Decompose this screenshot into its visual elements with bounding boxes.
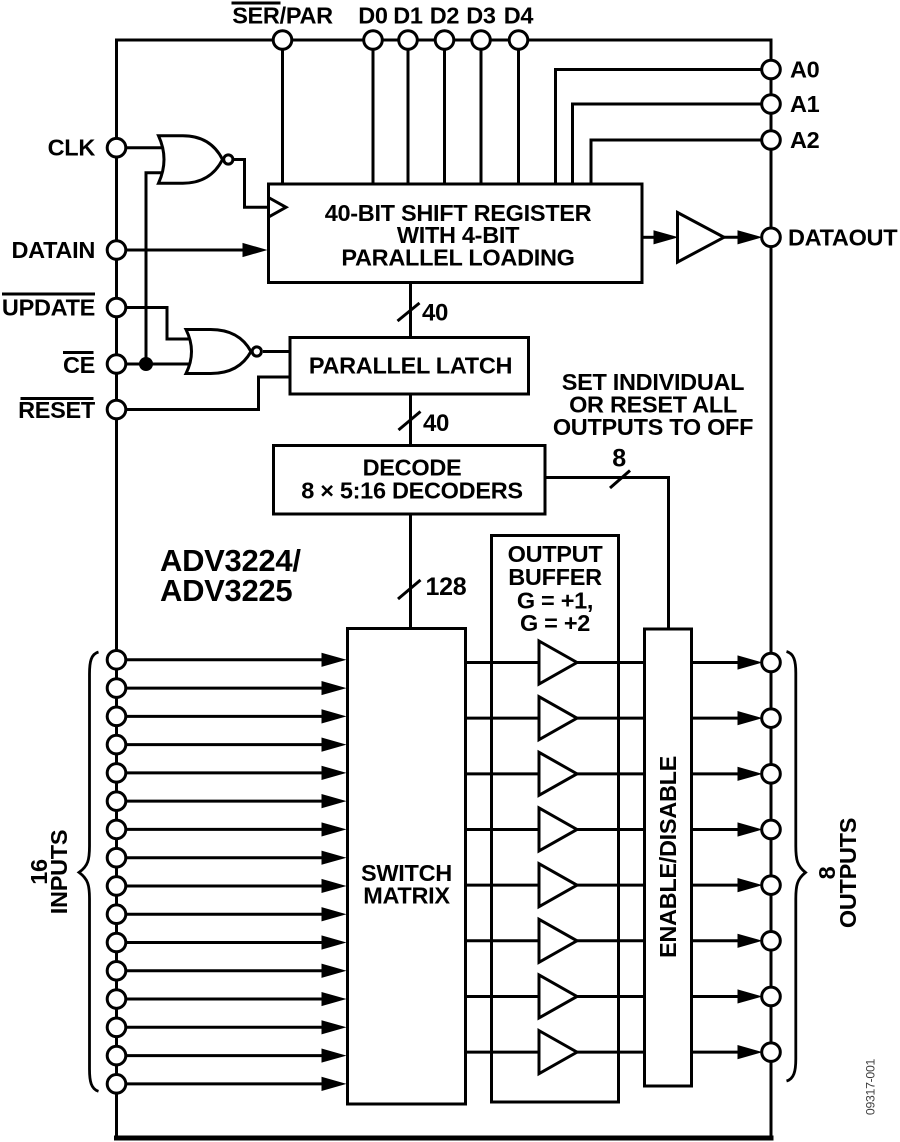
wire switch matrix to output buffer 6 [466, 939, 540, 942]
svg-text:PARALLEL LOADING: PARALLEL LOADING [341, 245, 574, 271]
svg-text:D3: D3 [466, 3, 496, 29]
svg-text:40: 40 [423, 410, 449, 437]
svg-text:OUTPUTS TO OFF: OUTPUTS TO OFF [553, 414, 753, 440]
svg-text:ADV3225: ADV3225 [160, 573, 292, 608]
node input 8 terminal [107, 848, 126, 867]
wire buffer U4 to DATAOUT [724, 236, 741, 239]
wire switch matrix to output buffer 5 [466, 884, 540, 887]
node input 9 terminal [107, 877, 126, 896]
svg-text:SER/PAR: SER/PAR [232, 3, 333, 29]
node D4 terminal [504, 3, 534, 50]
buffer amplifier 3 [539, 752, 577, 795]
node output 1 terminal [762, 653, 781, 672]
svg-text:RESET: RESET [18, 397, 96, 423]
wire input 7 to switch matrix [126, 822, 347, 836]
wire enable/disable to output 7 [692, 989, 763, 1003]
wire CE junction up to NOR U1 input [146, 173, 172, 364]
node output 7 terminal [762, 987, 781, 1006]
svg-text:G = +2: G = +2 [520, 610, 590, 636]
node input 11 terminal [107, 933, 126, 952]
wire buffer 1 to enable/disable [577, 661, 645, 664]
wire input 13 to switch matrix [126, 992, 347, 1006]
wire buffer 5 to enable/disable [577, 884, 645, 887]
svg-text:OUTPUTS: OUTPUTS [835, 818, 861, 928]
node input 1 terminal [107, 651, 126, 670]
svg-text:DATAIN: DATAIN [12, 237, 95, 263]
wire enable/disable to output 3 [692, 767, 763, 781]
wire D1 to shift register [407, 49, 410, 184]
node input 6 terminal [107, 792, 126, 811]
buffer amplifier 8 [539, 1031, 577, 1074]
wire enable/disable to output 2 [692, 711, 763, 725]
label set individual or reset all outputs to off [553, 369, 753, 440]
wire input 10 to switch matrix [126, 907, 347, 921]
svg-text:CE: CE [63, 352, 95, 378]
enable/disable U9 [645, 629, 692, 1086]
wire buffer 2 to enable/disable [577, 717, 645, 720]
wire input 4 to switch matrix [126, 738, 347, 752]
node input 13 terminal [107, 990, 126, 1009]
wire SER/PAR to shift register [281, 49, 284, 184]
wire input 1 to switch matrix [126, 653, 347, 667]
buffer amplifier 4 [539, 808, 577, 851]
node A0 terminal [762, 57, 820, 83]
node CE terminal [63, 351, 126, 378]
buffer amplifier 2 [539, 697, 577, 740]
wire enable/disable to output 1 [692, 655, 763, 669]
wire input 15 to switch matrix [126, 1048, 347, 1062]
wire right border [770, 40, 773, 1138]
svg-text:8 × 5:16 DECODERS: 8 × 5:16 DECODERS [301, 477, 523, 503]
bus slash 8 [610, 471, 630, 489]
wire top border [115, 39, 773, 42]
wire input 8 to switch matrix [126, 851, 347, 865]
node CE junction dot [139, 357, 153, 371]
wire enable/disable to output 4 [692, 822, 763, 836]
40-bit shift register U3 [269, 184, 643, 283]
wire input 2 to switch matrix [126, 681, 347, 695]
buffer U4 [678, 213, 725, 263]
wire enable/disable to output 8 [692, 1045, 763, 1059]
node input 2 terminal [107, 679, 126, 698]
wire buffer 7 to enable/disable [577, 995, 645, 998]
wire switch matrix to output buffer 8 [466, 1051, 540, 1054]
node D2 terminal [430, 3, 460, 50]
bus slash 40 (upper) [398, 303, 420, 321]
wire CLK to NOR U1 [126, 146, 171, 149]
label 8 OUTPUTS [814, 818, 861, 928]
node D3 terminal [466, 3, 496, 50]
svg-text:UPDATE: UPDATE [2, 295, 95, 321]
node D0 terminal [358, 3, 388, 50]
node output 5 terminal [762, 876, 781, 895]
label 16 INPUTS [26, 830, 72, 914]
output buffer U8 [492, 536, 619, 1103]
wire buffer 3 to enable/disable [577, 772, 645, 775]
node DATAIN terminal [12, 237, 126, 263]
wire switch matrix to output buffer 4 [466, 828, 540, 831]
svg-text:09317-001: 09317-001 [864, 1058, 878, 1115]
wire buffer 4 to enable/disable [577, 828, 645, 831]
node output 8 terminal [762, 1043, 781, 1062]
wire input 5 to switch matrix [126, 766, 347, 780]
wire bottom border [114, 1136, 774, 1141]
wire buffer 6 to enable/disable [577, 939, 645, 942]
wire input 3 to switch matrix [126, 709, 347, 723]
wire bus 40 shift register to parallel latch [409, 283, 412, 338]
svg-text:D2: D2 [430, 3, 460, 29]
wire DATAIN to shift register [126, 249, 249, 252]
svg-text:A1: A1 [790, 91, 820, 117]
wire CE to NOR U2 [126, 363, 201, 366]
wire UPDATE to NOR U2 [126, 308, 199, 340]
decoder U6 [274, 446, 546, 515]
buffer amplifier 1 [539, 641, 577, 684]
node input 7 terminal [107, 820, 126, 839]
wire NOR U2 output to parallel latch [263, 350, 290, 353]
svg-text:D4: D4 [504, 3, 534, 29]
node output 4 terminal [762, 820, 781, 839]
wire bus 8 decode to enable/disable [545, 478, 669, 630]
node input 16 terminal [107, 1075, 126, 1094]
node input 10 terminal [107, 905, 126, 924]
wire D2 to shift register [443, 49, 446, 184]
wire switch matrix to output buffer 1 [466, 661, 540, 664]
wire switch matrix to output buffer 3 [466, 772, 540, 775]
node input 14 terminal [107, 1018, 126, 1037]
node input 4 terminal [107, 735, 126, 754]
svg-text:ENABLE/DISABLE: ENABLE/DISABLE [655, 756, 681, 958]
wire A2 to shift register [591, 140, 762, 184]
NOR gate U2 [186, 330, 261, 374]
wire bus 128 decode to switch matrix [409, 514, 412, 629]
buffer amplifier 5 [539, 864, 577, 907]
bus slash 40 (lower) [399, 412, 421, 431]
node A1 terminal [762, 91, 820, 117]
svg-text:BUFFER: BUFFER [508, 564, 602, 590]
wire A0 to shift register [556, 70, 763, 185]
svg-text:PARALLEL LATCH: PARALLEL LATCH [309, 352, 512, 378]
label ADV3224/ADV3225 [160, 543, 301, 608]
svg-text:CLK: CLK [48, 135, 96, 161]
wire enable/disable to output 6 [692, 934, 763, 948]
wire D4 to shift register [517, 49, 520, 184]
wire input 6 to switch matrix [126, 794, 347, 808]
wire A1 to shift register [573, 104, 763, 184]
wire enable/disable to output 5 [692, 878, 763, 892]
node SER/PAR terminal [232, 2, 334, 50]
svg-text:128: 128 [426, 573, 467, 601]
wire input 9 to switch matrix [126, 879, 347, 893]
svg-text:A2: A2 [790, 127, 820, 153]
wire D0 to shift register [372, 49, 375, 184]
node input 5 terminal [107, 764, 126, 783]
svg-text:D0: D0 [358, 3, 388, 29]
wire D3 to shift register [480, 49, 483, 184]
svg-text:8: 8 [612, 444, 626, 472]
node input 12 terminal [107, 961, 126, 980]
node output 6 terminal [762, 932, 781, 951]
wire buffer 8 to enable/disable [577, 1051, 645, 1054]
svg-text:INPUTS: INPUTS [46, 830, 72, 914]
wire left border [115, 40, 118, 1138]
wire switch matrix to output buffer 7 [466, 995, 540, 998]
node A2 terminal [762, 127, 820, 153]
node input 15 terminal [107, 1046, 126, 1065]
wire bus 40 parallel latch to decode [409, 394, 412, 446]
node CLK terminal [48, 135, 126, 161]
wire input 12 to switch matrix [126, 964, 347, 978]
svg-text:D1: D1 [393, 3, 423, 29]
bus slash 128 [398, 580, 421, 599]
buffer amplifier 6 [539, 919, 577, 962]
NOR gate U1 [159, 136, 233, 183]
switch matrix U7 [348, 629, 466, 1105]
wire switch matrix to output buffer 2 [466, 717, 540, 720]
wire input 11 to switch matrix [126, 935, 347, 949]
node input 3 terminal [107, 707, 126, 726]
svg-text:MATRIX: MATRIX [363, 883, 450, 909]
node UPDATE terminal [2, 293, 126, 321]
svg-text:A0: A0 [790, 57, 820, 83]
node output 2 terminal [762, 709, 781, 728]
node D1 terminal [393, 3, 423, 50]
buffer amplifier 7 [539, 975, 577, 1018]
node RESET terminal [18, 397, 126, 423]
wire NOR U1 output to shift register clock [234, 160, 269, 208]
brace 16 inputs [79, 652, 99, 1091]
svg-text:DATAOUT: DATAOUT [788, 224, 898, 250]
svg-text:40: 40 [422, 300, 448, 327]
wire RESET to parallel latch [126, 377, 291, 410]
wire input 16 to switch matrix [126, 1077, 347, 1091]
node DATAOUT terminal [762, 224, 899, 250]
wire shift register to buffer U4 [642, 236, 657, 239]
parallel latch U5 [290, 338, 529, 395]
wire input 14 to switch matrix [126, 1020, 347, 1034]
brace 8 outputs [787, 652, 806, 1082]
node output 3 terminal [762, 765, 781, 784]
